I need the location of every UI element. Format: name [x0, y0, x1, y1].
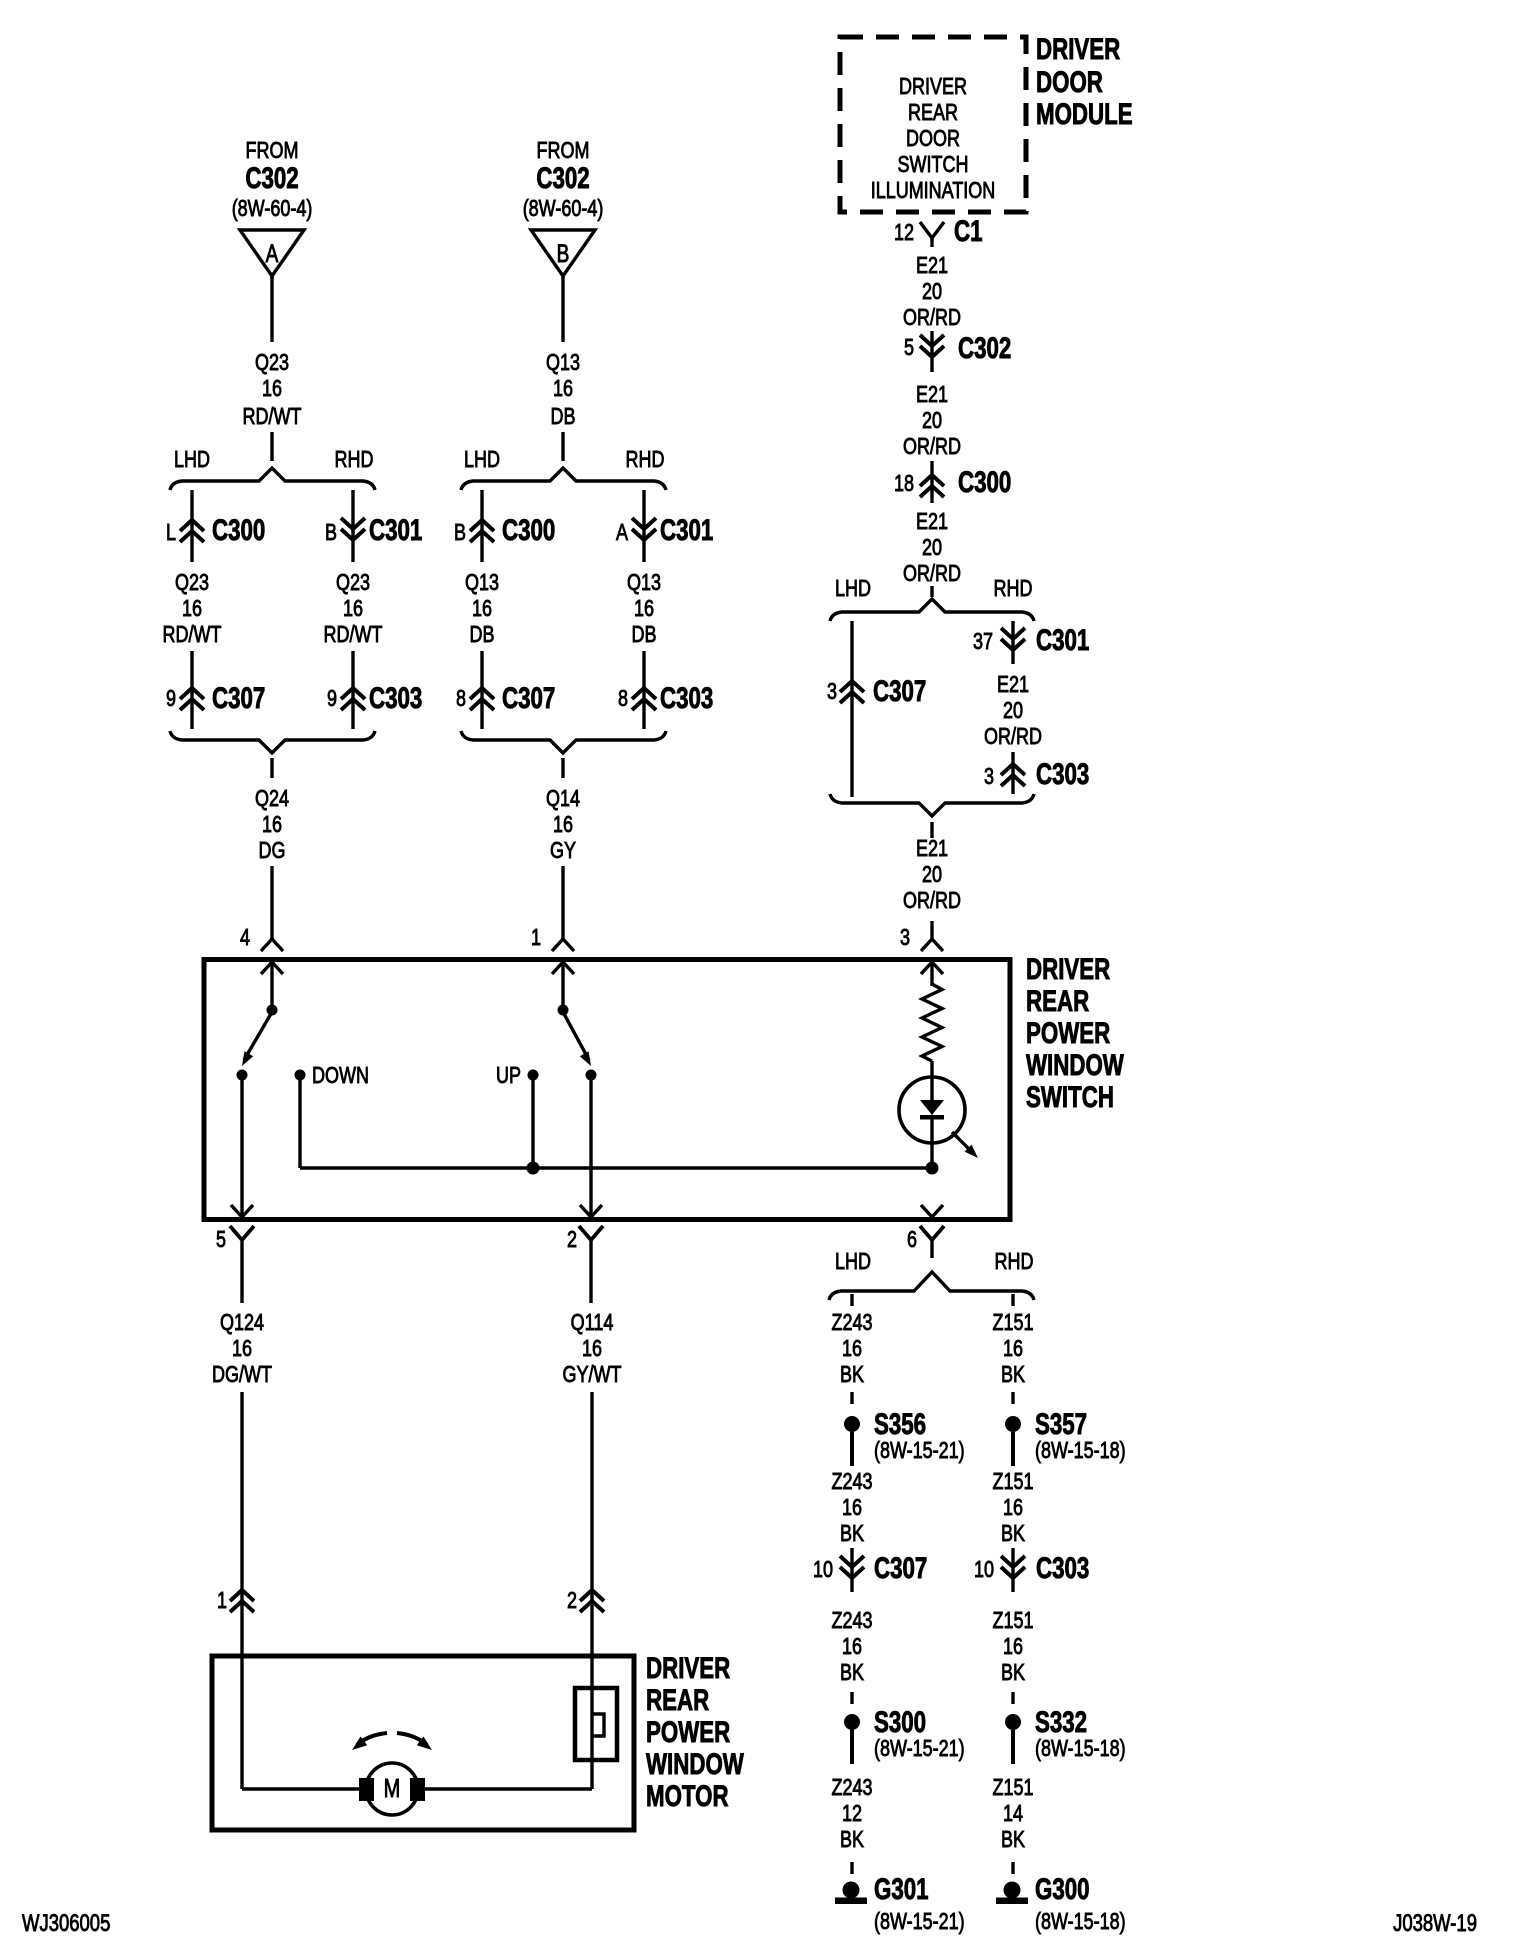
svg-text:RHD: RHD: [626, 447, 665, 473]
svg-text:GY: GY: [550, 838, 576, 864]
svg-text:FROM: FROM: [246, 138, 299, 164]
svg-text:LHD: LHD: [835, 576, 871, 602]
svg-text:POWER: POWER: [646, 1715, 730, 1749]
svg-text:(8W-15-18): (8W-15-18): [1035, 1909, 1126, 1935]
svg-text:C300: C300: [502, 513, 555, 547]
svg-text:SWITCH: SWITCH: [1026, 1080, 1114, 1114]
svg-text:16: 16: [634, 596, 654, 622]
svg-text:RD/WT: RD/WT: [163, 622, 222, 648]
svg-text:C303: C303: [1036, 757, 1089, 791]
svg-text:E21: E21: [916, 509, 948, 535]
svg-text:BK: BK: [1001, 1521, 1025, 1547]
svg-text:DB: DB: [551, 404, 576, 430]
svg-text:Q13: Q13: [465, 570, 499, 596]
svg-text:16: 16: [1003, 1495, 1023, 1521]
svg-text:6: 6: [907, 1227, 917, 1253]
svg-text:SWITCH: SWITCH: [898, 152, 969, 178]
svg-text:C301: C301: [1036, 623, 1089, 657]
svg-text:OR/RD: OR/RD: [984, 724, 1042, 750]
svg-text:L: L: [166, 520, 176, 546]
svg-text:C307: C307: [873, 674, 926, 708]
svg-text:DB: DB: [470, 622, 495, 648]
svg-text:16: 16: [343, 596, 363, 622]
svg-text:B: B: [325, 520, 337, 546]
svg-text:C307: C307: [212, 681, 265, 715]
svg-text:BK: BK: [1001, 1827, 1025, 1853]
svg-text:E21: E21: [997, 672, 1029, 698]
svg-text:Q124: Q124: [220, 1310, 264, 1336]
svg-text:16: 16: [262, 812, 282, 838]
svg-text:C303: C303: [369, 681, 422, 715]
svg-text:C300: C300: [212, 513, 265, 547]
svg-text:10: 10: [813, 1557, 833, 1583]
svg-text:WJ306005: WJ306005: [22, 1910, 110, 1937]
svg-text:ILLUMINATION: ILLUMINATION: [871, 178, 996, 204]
svg-text:BK: BK: [840, 1521, 864, 1547]
svg-text:16: 16: [262, 376, 282, 402]
svg-text:Q23: Q23: [255, 350, 289, 376]
svg-text:Z243: Z243: [832, 1775, 873, 1801]
svg-text:BK: BK: [840, 1660, 864, 1686]
svg-text:C300: C300: [958, 465, 1011, 499]
svg-text:DRIVER: DRIVER: [646, 1651, 730, 1685]
svg-text:REAR: REAR: [1026, 984, 1089, 1018]
svg-text:8: 8: [456, 686, 466, 712]
svg-text:OR/RD: OR/RD: [903, 888, 961, 914]
svg-text:G301: G301: [874, 1872, 929, 1906]
svg-text:FROM: FROM: [537, 138, 590, 164]
svg-text:DRIVER: DRIVER: [899, 74, 967, 100]
svg-text:DOOR: DOOR: [906, 126, 960, 152]
svg-text:(8W-60-4): (8W-60-4): [523, 196, 604, 222]
svg-text:RHD: RHD: [994, 576, 1033, 602]
svg-text:RD/WT: RD/WT: [324, 622, 383, 648]
svg-text:G300: G300: [1035, 1872, 1090, 1906]
svg-text:WINDOW: WINDOW: [1026, 1048, 1124, 1082]
svg-text:OR/RD: OR/RD: [903, 434, 961, 460]
svg-text:12: 12: [894, 220, 914, 246]
svg-text:10: 10: [974, 1557, 994, 1583]
svg-text:Q23: Q23: [175, 570, 209, 596]
svg-text:DG: DG: [259, 838, 286, 864]
svg-text:16: 16: [842, 1336, 862, 1362]
svg-text:16: 16: [582, 1336, 602, 1362]
svg-text:UP: UP: [496, 1063, 521, 1089]
svg-text:20: 20: [922, 279, 942, 305]
svg-text:9: 9: [166, 686, 176, 712]
svg-text:DOOR: DOOR: [1036, 65, 1103, 99]
svg-text:RHD: RHD: [335, 447, 374, 473]
svg-text:WINDOW: WINDOW: [646, 1747, 744, 1781]
svg-text:OR/RD: OR/RD: [903, 305, 961, 331]
svg-text:5: 5: [904, 335, 914, 361]
svg-text:2: 2: [567, 1588, 577, 1614]
svg-text:BK: BK: [840, 1362, 864, 1388]
svg-text:BK: BK: [840, 1827, 864, 1853]
svg-text:E21: E21: [916, 836, 948, 862]
svg-text:Q14: Q14: [546, 786, 580, 812]
svg-text:DG/WT: DG/WT: [212, 1362, 272, 1388]
svg-text:C303: C303: [1036, 1551, 1089, 1585]
svg-text:Z151: Z151: [993, 1469, 1034, 1495]
svg-text:MOTOR: MOTOR: [646, 1779, 729, 1813]
svg-text:3: 3: [900, 925, 910, 951]
svg-text:B: B: [557, 240, 570, 268]
svg-text:S357: S357: [1035, 1407, 1087, 1441]
svg-text:DB: DB: [632, 622, 657, 648]
svg-text:E21: E21: [916, 382, 948, 408]
svg-text:LHD: LHD: [835, 1249, 871, 1275]
svg-text:3: 3: [827, 679, 837, 705]
svg-text:Z151: Z151: [993, 1775, 1034, 1801]
svg-text:M: M: [384, 1773, 401, 1802]
svg-text:16: 16: [553, 812, 573, 838]
svg-text:C303: C303: [660, 681, 713, 715]
svg-text:A: A: [616, 520, 628, 546]
svg-text:E21: E21: [916, 253, 948, 279]
svg-text:(8W-15-21): (8W-15-21): [874, 1438, 965, 1464]
svg-text:DRIVER: DRIVER: [1036, 32, 1120, 66]
svg-text:B: B: [454, 520, 466, 546]
svg-text:20: 20: [922, 535, 942, 561]
svg-text:20: 20: [922, 862, 942, 888]
svg-text:Q23: Q23: [336, 570, 370, 596]
svg-text:(8W-60-4): (8W-60-4): [232, 196, 313, 222]
svg-text:OR/RD: OR/RD: [903, 561, 961, 587]
svg-text:(8W-15-18): (8W-15-18): [1035, 1736, 1126, 1762]
svg-text:Q24: Q24: [255, 786, 289, 812]
svg-text:DRIVER: DRIVER: [1026, 952, 1110, 986]
svg-text:1: 1: [531, 925, 541, 951]
svg-text:8: 8: [618, 686, 628, 712]
svg-text:16: 16: [842, 1634, 862, 1660]
svg-text:GY/WT: GY/WT: [563, 1362, 622, 1388]
svg-text:3: 3: [984, 764, 994, 790]
svg-text:BK: BK: [1001, 1362, 1025, 1388]
svg-text:4: 4: [240, 925, 250, 951]
svg-text:14: 14: [1003, 1801, 1023, 1827]
svg-text:S300: S300: [874, 1705, 926, 1739]
svg-text:RHD: RHD: [995, 1249, 1034, 1275]
svg-text:Q114: Q114: [571, 1310, 614, 1336]
svg-text:LHD: LHD: [464, 447, 500, 473]
svg-text:LHD: LHD: [174, 447, 210, 473]
svg-text:16: 16: [472, 596, 492, 622]
svg-text:12: 12: [842, 1801, 862, 1827]
svg-text:J038W-19: J038W-19: [1393, 1910, 1477, 1937]
svg-text:S356: S356: [874, 1407, 926, 1441]
svg-text:16: 16: [1003, 1634, 1023, 1660]
svg-text:1: 1: [217, 1588, 227, 1614]
svg-text:C301: C301: [660, 513, 713, 547]
svg-text:2: 2: [567, 1227, 577, 1253]
svg-text:9: 9: [327, 686, 337, 712]
svg-text:C301: C301: [369, 513, 422, 547]
svg-text:S332: S332: [1035, 1705, 1087, 1739]
svg-text:C302: C302: [245, 161, 298, 195]
svg-text:Z243: Z243: [832, 1608, 873, 1634]
svg-text:Z151: Z151: [993, 1310, 1034, 1336]
svg-text:Z243: Z243: [832, 1469, 873, 1495]
svg-text:16: 16: [553, 376, 573, 402]
svg-text:DOWN: DOWN: [312, 1063, 369, 1089]
svg-text:(8W-15-21): (8W-15-21): [874, 1909, 965, 1935]
svg-text:18: 18: [894, 471, 914, 497]
svg-text:(8W-15-21): (8W-15-21): [874, 1736, 965, 1762]
svg-text:BK: BK: [1001, 1660, 1025, 1686]
svg-text:(8W-15-18): (8W-15-18): [1035, 1438, 1126, 1464]
svg-text:16: 16: [1003, 1336, 1023, 1362]
svg-text:C302: C302: [536, 161, 589, 195]
svg-text:Q13: Q13: [546, 350, 580, 376]
svg-text:C1: C1: [954, 214, 983, 248]
svg-text:POWER: POWER: [1026, 1016, 1110, 1050]
svg-text:C307: C307: [874, 1551, 927, 1585]
svg-text:MODULE: MODULE: [1036, 97, 1133, 131]
svg-text:16: 16: [182, 596, 202, 622]
svg-text:Q13: Q13: [627, 570, 661, 596]
svg-text:16: 16: [842, 1495, 862, 1521]
svg-text:37: 37: [973, 629, 993, 655]
svg-text:20: 20: [922, 408, 942, 434]
svg-text:Z243: Z243: [832, 1310, 873, 1336]
svg-text:REAR: REAR: [646, 1683, 709, 1717]
svg-text:REAR: REAR: [908, 100, 958, 126]
svg-text:5: 5: [216, 1227, 226, 1253]
svg-text:A: A: [266, 240, 279, 268]
svg-text:C307: C307: [502, 681, 555, 715]
svg-text:20: 20: [1003, 698, 1023, 724]
svg-text:C302: C302: [958, 331, 1011, 365]
svg-text:RD/WT: RD/WT: [243, 404, 302, 430]
svg-text:Z151: Z151: [993, 1608, 1034, 1634]
svg-text:16: 16: [232, 1336, 252, 1362]
